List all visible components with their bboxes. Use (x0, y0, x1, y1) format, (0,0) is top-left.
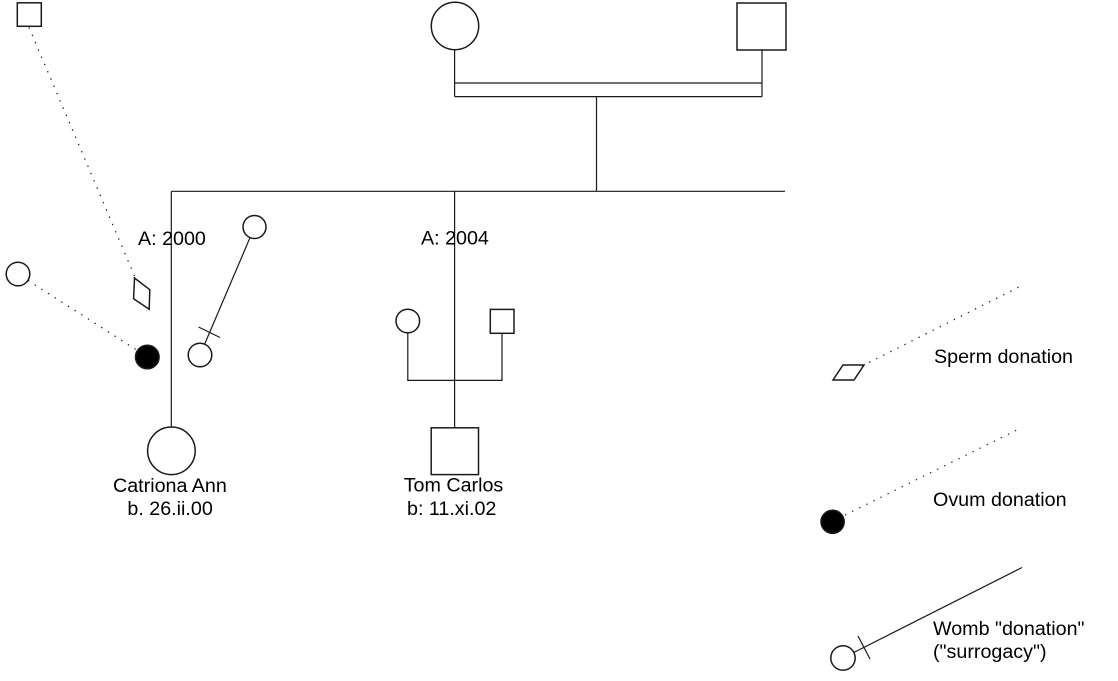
wire: grandmother to marriage line (454, 50, 456, 97)
sperm donor square above Tom (490, 309, 514, 333)
ovum donor circle above Tom (396, 309, 420, 333)
legend dotted line: sperm donation (862, 286, 1021, 366)
womb donation line (left branch) (205, 238, 250, 344)
donor bracket wire above Tom (408, 333, 502, 381)
Tom Carlos square (431, 428, 478, 475)
sibship horizontal line (171, 190, 785, 192)
dotted link: donor circle to ovum-donation symbol (28, 281, 138, 351)
svg-text:Sperm donation: Sperm donation (934, 346, 1073, 368)
legend womb donation circle (831, 646, 855, 670)
Catriona Ann circle (148, 427, 196, 475)
wire: drop to Tom (454, 191, 456, 427)
svg-text:Womb "donation": Womb "donation" (933, 618, 1085, 640)
legend womb donation line (854, 568, 1022, 653)
sperm donor square (top left) (17, 3, 41, 27)
legend sperm donation parallelogram (833, 365, 864, 380)
womb donation circle (lower, left branch) (188, 343, 212, 367)
wire: marriage descender (596, 97, 598, 192)
grandmother circle (431, 2, 478, 49)
marriage double line (bottom) (455, 96, 762, 98)
legend womb donation tick (858, 636, 870, 659)
dotted link: donor square to sperm-donation symbol (29, 28, 135, 277)
legend ovum donation filled circle (821, 510, 844, 533)
svg-text:Ovum donation: Ovum donation (933, 489, 1067, 511)
legend dotted line: ovum donation (845, 428, 1022, 516)
wire: grandfather to marriage line (761, 50, 763, 97)
wire: drop to Catriona (170, 191, 172, 427)
womb donation tick (left branch) (199, 327, 221, 338)
svg-text:Tom Carlos: Tom Carlos (404, 475, 504, 497)
svg-text:A: 2000: A: 2000 (138, 228, 206, 250)
svg-text:("surrogacy"): ("surrogacy") (933, 641, 1047, 663)
ovum donation symbol (filled circle) (136, 345, 160, 369)
ovum donor circle (left) (6, 262, 30, 286)
svg-text:b. 26.ii.00: b. 26.ii.00 (127, 498, 212, 520)
grandfather square (737, 3, 786, 50)
sperm donation symbol (parallelogram) (134, 278, 150, 309)
surrogate circle (upper, left branch) (243, 216, 266, 239)
marriage double line (top) (455, 82, 762, 84)
svg-text:b: 11.xi.02: b: 11.xi.02 (407, 498, 496, 520)
svg-text:A: 2004: A: 2004 (421, 228, 489, 250)
svg-text:Catriona Ann: Catriona Ann (113, 475, 227, 497)
